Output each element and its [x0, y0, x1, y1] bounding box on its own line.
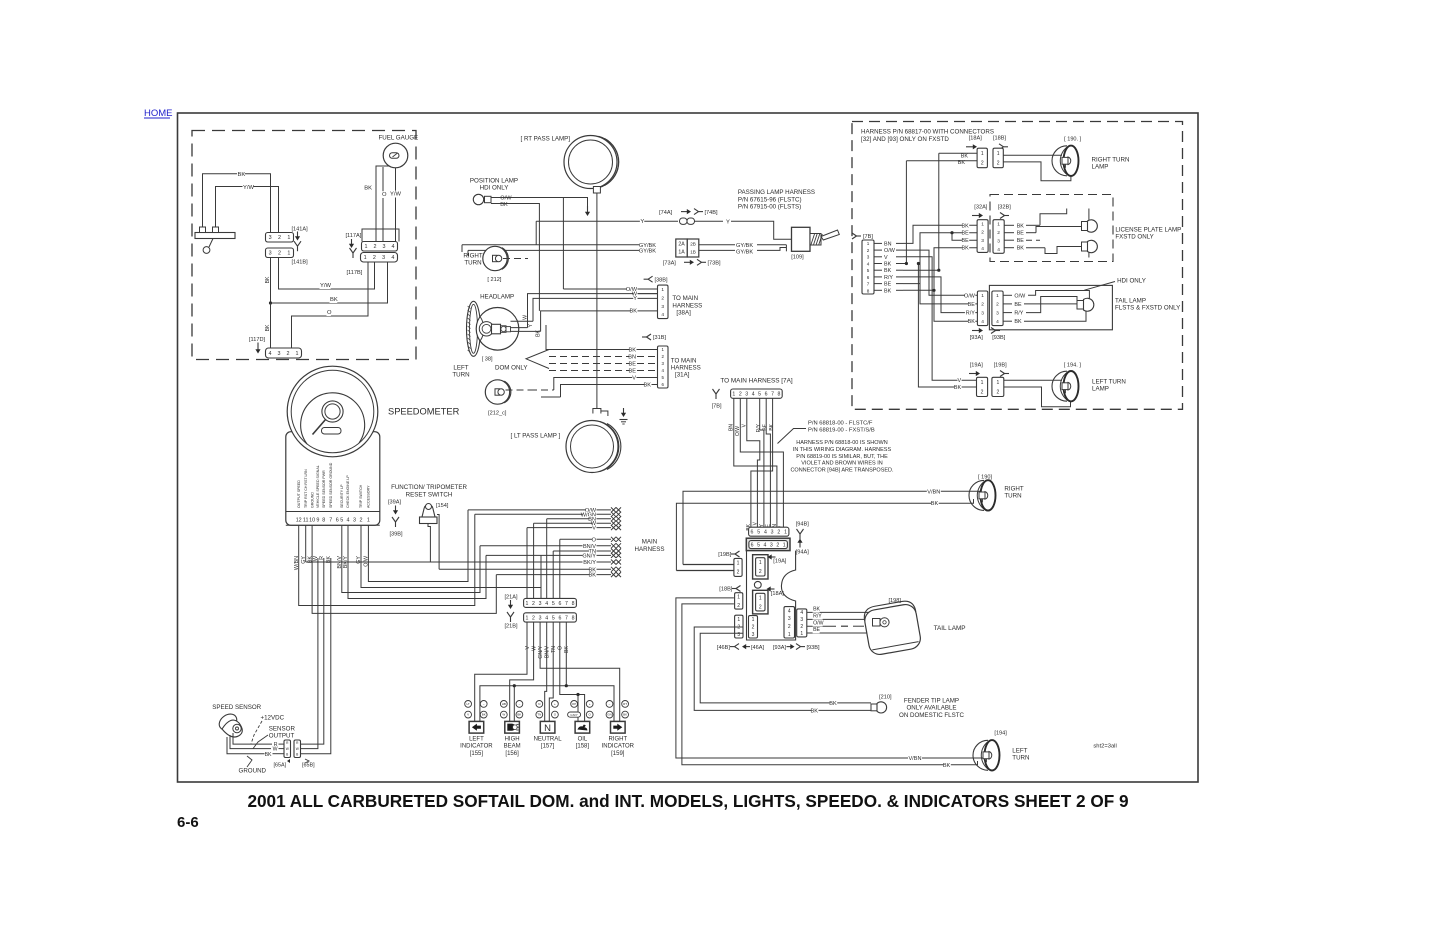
wire Y/W sender to connector 141A — [216, 187, 279, 234]
svg-text:HIGH: HIGH — [505, 737, 520, 743]
svg-text:FUEL GAUGE: FUEL GAUGE — [379, 135, 419, 142]
svg-text:7: 7 — [867, 282, 870, 287]
connector 65A — [284, 740, 291, 758]
tail lamp 198 — [862, 599, 922, 656]
svg-text:3: 3 — [382, 255, 385, 261]
wires to 31A — [546, 325, 658, 350]
svg-text:LAMP: LAMP — [1092, 386, 1109, 393]
speedometer pin strip — [286, 511, 380, 513]
svg-text:6: 6 — [751, 542, 754, 548]
svg-text:CHECK ENGINE LP: CHECK ENGINE LP — [346, 475, 350, 508]
svg-text:BK: BK — [968, 319, 976, 325]
svg-text:SECURITY LP: SECURITY LP — [340, 484, 344, 508]
labels into 32A — [962, 223, 969, 229]
svg-text:2: 2 — [997, 230, 1000, 236]
svg-text:BK: BK — [954, 385, 962, 391]
svg-text:BK: BK — [644, 382, 652, 388]
position lamp bulb — [473, 194, 483, 204]
svg-text:GY/BK: GY/BK — [736, 243, 753, 249]
svg-text:[38A]: [38A] — [676, 310, 691, 317]
fuel gauge wire BK down — [376, 166, 389, 242]
svg-text:GY/BK: GY/BK — [639, 249, 656, 255]
svg-text:1B: 1B — [690, 250, 696, 255]
svg-text:4: 4 — [764, 530, 767, 536]
connector 18A right — [977, 148, 987, 168]
connector 18B — [735, 593, 743, 609]
svg-text:OP: OP — [572, 702, 576, 706]
connector 93A tail — [784, 607, 795, 638]
svg-text:[38B]: [38B] — [655, 277, 669, 283]
svg-text:+: + — [589, 702, 591, 706]
svg-text:O/W: O/W — [500, 196, 512, 202]
svg-text:BE: BE — [813, 627, 820, 633]
svg-text:2: 2 — [374, 244, 377, 250]
svg-text:BK: BK — [961, 223, 969, 229]
svg-text:BN/V: BN/V — [545, 645, 551, 658]
svg-text:V/BN: V/BN — [927, 489, 940, 495]
svg-text:3: 3 — [278, 351, 281, 357]
svg-text:O/W: O/W — [1014, 293, 1026, 299]
svg-text:2: 2 — [287, 351, 290, 357]
svg-text:2: 2 — [661, 295, 664, 301]
fuel gauge — [383, 143, 408, 168]
wires out of 93B fxstd — [1003, 294, 1012, 296]
wire Y drop from position area — [535, 221, 537, 245]
svg-text:2B: 2B — [690, 242, 696, 247]
svg-text:RIGHT: RIGHT — [463, 253, 482, 260]
svg-text:8: 8 — [778, 392, 781, 398]
svg-text:1: 1 — [981, 151, 984, 157]
junction dot BK — [269, 301, 272, 304]
svg-text:[19A]: [19A] — [970, 363, 984, 369]
svg-text:1: 1 — [759, 560, 762, 566]
svg-text:1: 1 — [867, 241, 870, 246]
dom only callout triangle — [526, 350, 549, 369]
speed sensor body — [216, 711, 240, 733]
svg-text:2A: 2A — [678, 242, 685, 248]
svg-text:TURN: TURN — [1004, 493, 1021, 500]
svg-text:TO MAIN: TO MAIN — [671, 357, 697, 364]
svg-text:[ 190. ]: [ 190. ] — [1064, 136, 1082, 142]
svg-text:4: 4 — [347, 517, 350, 523]
svg-text:Y/W: Y/W — [390, 192, 401, 198]
svg-text:P/N 68819-00 - FXST/S/B: P/N 68819-00 - FXST/S/B — [808, 428, 875, 434]
fender tip lamp wires — [700, 633, 871, 703]
neutral indicator 157 — [536, 701, 543, 708]
svg-text:5: 5 — [867, 268, 870, 273]
svg-text:3: 3 — [353, 517, 356, 523]
svg-text:[94B]: [94B] — [796, 522, 810, 528]
reset switch wires to harness — [428, 524, 430, 563]
svg-text:2: 2 — [737, 603, 740, 609]
svg-text:4: 4 — [391, 255, 394, 261]
svg-text:GN: GN — [607, 713, 612, 717]
svg-text:2: 2 — [997, 161, 1000, 167]
svg-text:10: 10 — [309, 517, 315, 523]
high beam indicator 156 — [500, 701, 507, 708]
svg-text:[7B]: [7B] — [863, 234, 873, 240]
svg-text:2: 2 — [752, 625, 755, 631]
svg-text:[154]: [154] — [436, 503, 449, 509]
svg-text:4: 4 — [981, 319, 984, 325]
svg-text:1: 1 — [365, 244, 368, 250]
license plate dashed box — [990, 195, 1113, 262]
connector 94A — [746, 538, 790, 550]
svg-text:[109]: [109] — [791, 255, 804, 261]
svg-text:[39B]: [39B] — [390, 532, 404, 538]
svg-text:BK: BK — [884, 262, 892, 268]
svg-text:W: W — [531, 646, 537, 651]
svg-text:1: 1 — [981, 222, 984, 228]
svg-text:HOME: HOME — [144, 108, 173, 119]
connector 32A — [977, 220, 988, 253]
svg-text:BK: BK — [364, 186, 372, 192]
svg-text:N: N — [544, 723, 551, 734]
label 93A arrow fxstd — [972, 330, 980, 332]
fuel gauge wire Y/W down — [395, 168, 397, 242]
LT pass lamp ground symbol — [623, 408, 625, 414]
license bulb wiring — [1040, 209, 1067, 226]
svg-text:ON DOMESTIC FLSTC: ON DOMESTIC FLSTC — [899, 712, 965, 719]
speed sensor wires up to speedometer — [301, 558, 324, 744]
svg-text:5: 5 — [757, 530, 760, 536]
fuel sender dashed enclosure — [192, 131, 416, 360]
svg-text:4: 4 — [661, 312, 664, 318]
svg-text:RIGHT TURN: RIGHT TURN — [1092, 157, 1130, 164]
svg-text:1: 1 — [996, 293, 999, 299]
svg-text:[7B]: [7B] — [712, 404, 722, 410]
svg-text:OUTPUT SPEED: OUTPUT SPEED — [297, 480, 301, 508]
svg-text:12: 12 — [296, 517, 302, 523]
connector 19B fxstd — [992, 377, 1004, 396]
svg-text:O: O — [327, 310, 332, 316]
svg-text:BK: BK — [811, 709, 819, 715]
svg-text:BK: BK — [500, 202, 508, 208]
svg-text:BK: BK — [265, 752, 272, 758]
svg-text:LT: LT — [466, 702, 469, 706]
tail bulb fxstd — [1077, 301, 1084, 310]
labels into 93A fxstd — [965, 293, 975, 299]
svg-text:RT: RT — [623, 702, 627, 706]
svg-text:4: 4 — [867, 261, 870, 266]
connector 117B — [361, 253, 398, 263]
svg-text:POSITION LAMP: POSITION LAMP — [470, 178, 518, 185]
svg-text:4: 4 — [545, 615, 548, 621]
svg-text:W: W — [502, 713, 505, 717]
svg-text:GN/Y: GN/Y — [582, 553, 596, 559]
pn harness leader line — [778, 429, 807, 444]
svg-text:BE: BE — [1014, 302, 1022, 308]
svg-text:4: 4 — [788, 608, 791, 614]
fuel gauge connector stub lines — [362, 229, 399, 242]
svg-text:BK: BK — [829, 701, 837, 707]
svg-text:PASSING LAMP HARNESS: PASSING LAMP HARNESS — [738, 189, 815, 196]
svg-text:Y: Y — [640, 219, 644, 225]
svg-text:2: 2 — [981, 302, 984, 308]
svg-text:HARNESS: HARNESS — [672, 302, 702, 309]
oil indicator 158 — [571, 701, 578, 708]
svg-text:[93B]: [93B] — [992, 335, 1006, 341]
svg-text:[157]: [157] — [541, 744, 555, 750]
svg-text:4: 4 — [269, 351, 272, 357]
license bulb 1 — [1082, 222, 1088, 231]
labels into 18A — [961, 153, 968, 159]
wires 21A up to harness — [526, 528, 528, 599]
svg-text:B: B — [296, 753, 298, 757]
svg-text:[18A]: [18A] — [969, 135, 983, 141]
svg-text:[ LT PASS LAMP ]: [ LT PASS LAMP ] — [511, 433, 561, 440]
fork 21B — [507, 612, 511, 617]
svg-text:[194]: [194] — [994, 731, 1007, 737]
connector 93B tail — [797, 609, 807, 637]
svg-text:3: 3 — [269, 235, 272, 241]
position lamp wires — [500, 195, 511, 202]
svg-text:[156]: [156] — [505, 751, 519, 757]
svg-text:BK: BK — [1017, 246, 1025, 252]
svg-text:[ 38]: [ 38] — [482, 357, 493, 363]
svg-text:BK: BK — [961, 246, 969, 252]
svg-text:2: 2 — [532, 601, 535, 607]
svg-text:V: V — [632, 375, 636, 381]
indicator feed wires — [475, 648, 527, 721]
connector 18B right — [993, 148, 1003, 168]
svg-text:1: 1 — [367, 517, 370, 523]
svg-text:8: 8 — [572, 601, 575, 607]
svg-text:1: 1 — [737, 617, 740, 623]
svg-text:[21A]: [21A] — [505, 595, 519, 601]
svg-text:6-6: 6-6 — [177, 814, 199, 831]
svg-text:TURN: TURN — [452, 372, 469, 379]
connector 21B — [524, 613, 577, 622]
svg-text:LICENSE PLATE LAMP: LICENSE PLATE LAMP — [1115, 227, 1181, 234]
svg-text:SPEED SENSOR GROUND: SPEED SENSOR GROUND — [329, 462, 333, 508]
svg-text:3: 3 — [867, 255, 870, 260]
svg-text:BK: BK — [265, 324, 271, 331]
svg-text:R/Y: R/Y — [1014, 311, 1023, 317]
fork 31B label — [642, 336, 647, 338]
connector 19A fxstd — [977, 377, 988, 396]
svg-text:[73A]: [73A] — [663, 261, 677, 267]
label 117B with fork — [350, 248, 354, 253]
svg-text:R/Y: R/Y — [756, 423, 762, 432]
svg-text:6: 6 — [867, 275, 870, 280]
svg-text:P/N 67615-96 (FLSTC): P/N 67615-96 (FLSTC) — [738, 196, 802, 203]
svg-text:3: 3 — [996, 310, 999, 316]
svg-text:SPEED SENSOR PWR: SPEED SENSOR PWR — [322, 470, 326, 508]
svg-text:2: 2 — [532, 615, 535, 621]
connector 31A — [658, 346, 669, 388]
svg-text:LEFT: LEFT — [453, 365, 468, 372]
connector 93B fxstd — [992, 291, 1003, 326]
svg-text:[94A]: [94A] — [796, 550, 810, 556]
svg-text:[212_c]: [212_c] — [488, 411, 507, 417]
connector 7A — [731, 389, 783, 398]
svg-text:8: 8 — [322, 517, 325, 523]
connector 94B — [749, 527, 789, 536]
svg-text:BK: BK — [813, 607, 820, 613]
svg-text:N: N — [538, 702, 540, 706]
svg-text:R/Y: R/Y — [813, 614, 822, 620]
toggle switch 109 — [792, 227, 811, 251]
svg-text:11: 11 — [303, 517, 309, 523]
speedometer hub and needle — [313, 412, 333, 435]
svg-text:2: 2 — [777, 530, 780, 536]
svg-text:SPEED SENSOR: SPEED SENSOR — [212, 704, 261, 711]
svg-text:[141B]: [141B] — [292, 260, 309, 266]
svg-text:MAIN: MAIN — [642, 539, 657, 546]
svg-text:O/W: O/W — [964, 293, 976, 299]
svg-text:TN: TN — [551, 646, 557, 653]
svg-text:[93B]: [93B] — [807, 645, 821, 651]
svg-text:1: 1 — [525, 601, 528, 607]
svg-text:1: 1 — [783, 542, 786, 548]
svg-text:1: 1 — [997, 222, 1000, 228]
connector 19A inside — [753, 555, 768, 579]
svg-text:1: 1 — [800, 631, 803, 637]
svg-text:4: 4 — [392, 244, 395, 250]
svg-text:Y/W: Y/W — [243, 185, 254, 191]
connector 46A — [749, 616, 758, 638]
svg-text:BN: BN — [628, 354, 636, 360]
svg-text:[ 194. ]: [ 194. ] — [1064, 363, 1082, 369]
svg-text:[19A]: [19A] — [773, 559, 787, 565]
svg-text:V: V — [525, 645, 531, 649]
svg-text:1: 1 — [732, 392, 735, 398]
svg-text:GN/Y: GN/Y — [570, 713, 577, 717]
wire O/W to 38A — [563, 288, 657, 290]
RT pass lamp — [599, 136, 619, 187]
svg-text:FLSTS & FXSTD ONLY: FLSTS & FXSTD ONLY — [1115, 305, 1180, 312]
connector 141B — [266, 248, 294, 258]
svg-text:GROUND: GROUND — [239, 768, 267, 775]
svg-text:[46A]: [46A] — [751, 645, 765, 651]
svg-text:LEFT TURN: LEFT TURN — [1092, 379, 1126, 386]
svg-text:3: 3 — [771, 530, 774, 536]
svg-text:6: 6 — [765, 392, 768, 398]
svg-text:BK: BK — [517, 713, 521, 717]
svg-text:R/Y: R/Y — [966, 311, 975, 317]
svg-text:[21B]: [21B] — [505, 624, 519, 630]
svg-text:[18A]: [18A] — [771, 591, 785, 597]
svg-text:TO MAIN: TO MAIN — [672, 295, 698, 302]
right turn mid wires — [683, 491, 981, 564]
svg-text:5: 5 — [552, 601, 555, 607]
svg-text:HB: HB — [502, 702, 506, 706]
svg-text:6: 6 — [751, 530, 754, 536]
arrow 18A label — [770, 588, 775, 590]
svg-text:2: 2 — [360, 517, 363, 523]
vertical routing right box — [903, 161, 906, 264]
svg-text:2: 2 — [996, 302, 999, 308]
svg-text:[19B]: [19B] — [994, 363, 1008, 369]
svg-text:[93A]: [93A] — [970, 335, 984, 341]
svg-text:FXSTD ONLY: FXSTD ONLY — [1115, 234, 1153, 241]
fork 38B label — [644, 278, 649, 280]
svg-text:2: 2 — [278, 251, 281, 257]
connector 18A inside — [753, 590, 768, 614]
svg-text:DOM ONLY: DOM ONLY — [495, 365, 528, 372]
right indicator 159 — [606, 701, 613, 708]
svg-text:[ 190]: [ 190] — [978, 475, 992, 481]
svg-text:sht2=3all: sht2=3all — [1093, 744, 1116, 750]
connector 117A — [362, 242, 398, 252]
svg-text:3: 3 — [997, 238, 1000, 244]
svg-text:HARNESS P/N 68818-00 IS SHOWN: HARNESS P/N 68818-00 IS SHOWN — [796, 440, 887, 446]
svg-text:BK: BK — [482, 713, 486, 717]
fender tip lamp 210 — [871, 704, 877, 711]
svg-text:W: W — [286, 747, 289, 751]
svg-text:1: 1 — [661, 287, 664, 293]
svg-text:4: 4 — [981, 246, 984, 252]
svg-text:BK: BK — [943, 763, 951, 769]
label 94A with arrow — [799, 542, 801, 548]
headlamp body — [476, 308, 519, 351]
svg-text:2: 2 — [981, 161, 984, 167]
svg-text:2: 2 — [996, 390, 999, 396]
svg-text:[74B]: [74B] — [705, 210, 719, 216]
svg-text:3: 3 — [800, 617, 803, 623]
svg-text:[19B]: [19B] — [718, 552, 732, 558]
svg-text:3: 3 — [383, 244, 386, 250]
svg-text:BE: BE — [1017, 231, 1025, 237]
svg-text:[198]: [198] — [889, 598, 902, 604]
labels into 19A fxstd — [957, 378, 961, 384]
svg-text:P/N 67915-00 (FLSTS): P/N 67915-00 (FLSTS) — [738, 204, 801, 211]
connector 19B — [734, 558, 742, 576]
svg-text:LEFT: LEFT — [1012, 748, 1027, 755]
svg-text:OIL: OIL — [578, 737, 588, 743]
svg-text:GN/Y: GN/Y — [538, 645, 544, 658]
svg-text:NEUTRAL: NEUTRAL — [534, 737, 563, 743]
svg-text:7: 7 — [565, 601, 568, 607]
svg-text:[46B]: [46B] — [717, 645, 731, 651]
svg-text:BK: BK — [630, 309, 638, 315]
svg-text:2001 ALL CARBURETED SOFTAIL DO: 2001 ALL CARBURETED SOFTAIL DOM. and INT… — [247, 791, 1128, 811]
svg-text:4: 4 — [996, 319, 999, 325]
svg-text:4: 4 — [545, 601, 548, 607]
svg-text:[141A]: [141A] — [292, 227, 309, 233]
svg-text:BK: BK — [238, 172, 246, 178]
svg-text:2: 2 — [759, 604, 762, 610]
svg-text:O/W: O/W — [884, 248, 896, 254]
connector 65B — [294, 740, 301, 758]
svg-text:+12VDC: +12VDC — [261, 715, 285, 722]
speedometer trip pill — [322, 428, 342, 435]
svg-text:BE: BE — [1017, 238, 1025, 244]
svg-text:[32B]: [32B] — [998, 204, 1012, 210]
svg-text:[159]: [159] — [611, 751, 625, 757]
svg-text:6: 6 — [558, 601, 561, 607]
svg-text:[65A]: [65A] — [274, 763, 287, 769]
svg-text:IN THIS WIRING DIAGRAM. HARNE: IN THIS WIRING DIAGRAM. HARNESS — [793, 447, 892, 453]
tail lamp assembly body outline — [747, 551, 796, 640]
svg-text:TAIL LAMP: TAIL LAMP — [934, 625, 966, 632]
svg-text:8: 8 — [572, 615, 575, 621]
svg-text:SENSOR: SENSOR — [269, 726, 296, 733]
svg-text:[93A]: [93A] — [773, 645, 787, 651]
svg-text:[158]: [158] — [576, 744, 590, 750]
left turn bottom wires — [676, 598, 985, 758]
svg-text:2: 2 — [800, 624, 803, 630]
svg-text:BE: BE — [961, 238, 969, 244]
svg-text:4: 4 — [752, 392, 755, 398]
FXSTD harness dashed box — [852, 122, 1183, 410]
svg-text:3: 3 — [981, 238, 984, 244]
headlamp bulb — [479, 322, 493, 336]
svg-text:RIGHT: RIGHT — [608, 737, 627, 743]
svg-text:1: 1 — [737, 561, 740, 567]
svg-text:[32A]: [32A] — [974, 204, 988, 210]
